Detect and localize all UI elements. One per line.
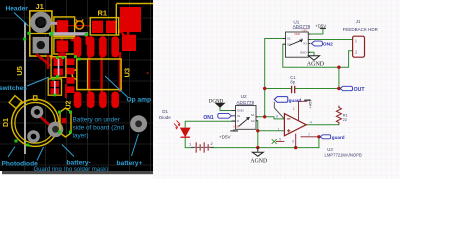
red traces xyxy=(39,26,128,126)
net flag ON1 xyxy=(203,113,231,121)
label switches xyxy=(0,77,49,92)
wire U1 S2 to J1 pin2 / OUT node xyxy=(283,44,353,67)
wire U1 S1 to inverting node xyxy=(265,39,286,117)
junction op-amp V- to rail xyxy=(294,146,297,149)
wire U1 GND to AGND xyxy=(308,52,314,55)
net flag guard (pin7) xyxy=(320,135,344,140)
net flag OUT xyxy=(340,86,365,93)
power flag +D5V (U1) xyxy=(315,24,326,29)
resistor R1 xyxy=(336,106,341,125)
junction guard pin7 xyxy=(317,135,320,138)
svg-text:switches: switches xyxy=(0,85,27,92)
wire AGND rail xyxy=(211,147,319,149)
label Op amp xyxy=(105,76,151,104)
svg-text:Battery on under: Battery on under xyxy=(73,117,121,124)
resistor R1 footprint xyxy=(90,18,119,35)
switch U2 ADG779 xyxy=(232,106,258,130)
window edge shadow xyxy=(2,171,153,174)
svg-text:7: 7 xyxy=(308,133,310,137)
svg-text:2: 2 xyxy=(293,107,295,111)
label battery- xyxy=(62,145,91,167)
svg-text:guard: guard xyxy=(289,98,302,103)
svg-text:ON1: ON1 xyxy=(203,115,214,121)
wire op-amp output to R1 xyxy=(306,124,339,126)
svg-text:S2: S2 xyxy=(251,119,255,123)
gray trace J1 to U3 xyxy=(49,32,88,44)
switch U2 footprint octagon xyxy=(58,108,72,137)
svg-text:battery-: battery- xyxy=(67,160,91,167)
svg-text:AGND: AGND xyxy=(307,61,325,67)
svg-text:guard: guard xyxy=(332,135,345,140)
svg-text:+D5V: +D5V xyxy=(315,24,326,29)
svg-text:S1: S1 xyxy=(287,37,291,41)
label battery+ xyxy=(117,134,143,167)
svg-text:+A5V: +A5V xyxy=(309,99,313,109)
label Battery on under side of board (2nd layer) xyxy=(73,117,125,140)
svg-text:layer): layer) xyxy=(73,133,89,140)
svg-text:8: 8 xyxy=(276,114,278,118)
wire U1 VDD to +D5V xyxy=(308,28,323,34)
switch U1 ADG779 xyxy=(283,28,311,57)
svg-text:+D5V: +D5V xyxy=(219,135,232,140)
power flag +A5V xyxy=(304,99,312,109)
photodiode footprint xyxy=(9,96,63,147)
svg-text:VDD: VDD xyxy=(294,32,300,36)
svg-text:22: 22 xyxy=(343,117,348,122)
ground AGND (under U1) xyxy=(307,56,325,68)
wire guard pin7 elbow to rail xyxy=(318,137,320,148)
svg-text:U3: U3 xyxy=(122,68,131,78)
wire U1 D to J1 pin1 xyxy=(308,39,352,41)
wire photodiode cathode to battery xyxy=(185,137,193,147)
junction AGND rail tap xyxy=(256,146,259,149)
test point glyph xyxy=(76,19,84,29)
svg-text:ADG779: ADG779 xyxy=(293,24,311,29)
svg-text:LMP7721MA/NOPB: LMP7721MA/NOPB xyxy=(325,152,362,157)
header J1 footprint xyxy=(23,11,54,56)
capacitor footprint left of R1 xyxy=(54,17,75,54)
op-amp U3 xyxy=(276,101,319,147)
svg-text:FEEDBACK HDR: FEEDBACK HDR xyxy=(343,27,379,32)
svg-text:J1: J1 xyxy=(356,19,361,24)
svg-text:4: 4 xyxy=(310,120,312,124)
net flag ON2 xyxy=(311,41,333,48)
battery+ pad xyxy=(130,115,147,132)
net flag guard (inverting node) xyxy=(274,97,301,119)
svg-text:Diode: Diode xyxy=(159,115,171,120)
power flag +D5V (U2) xyxy=(219,129,238,139)
gray trace J1 pad to cap pad xyxy=(51,22,58,25)
svg-text:IN: IN xyxy=(304,42,307,46)
svg-text:U2: U2 xyxy=(241,94,247,99)
svg-text:side of board (2nd: side of board (2nd xyxy=(73,125,125,132)
wire C1 feedback xyxy=(265,88,339,90)
svg-text:D1: D1 xyxy=(3,118,10,127)
svg-text:battery+: battery+ xyxy=(117,160,143,167)
pcb grid xyxy=(0,0,153,171)
svg-text:Op amp: Op amp xyxy=(127,97,152,104)
connector J1 FEEDBACK HDR xyxy=(353,36,365,57)
svg-text:GND: GND xyxy=(237,109,245,113)
svg-text:ADG779: ADG779 xyxy=(236,100,254,105)
svg-text:S1: S1 xyxy=(251,113,255,117)
capacitor C1 xyxy=(292,86,295,93)
node OUT xyxy=(337,87,340,90)
wire inverting input xyxy=(256,117,284,119)
svg-text:GND: GND xyxy=(300,50,308,54)
right edge pads xyxy=(116,4,153,52)
svg-text:8p: 8p xyxy=(290,80,295,85)
svg-text:D1: D1 xyxy=(162,109,168,114)
junction non-inverting input xyxy=(256,129,259,132)
svg-text:Header: Header xyxy=(6,6,29,13)
svg-text:U2: U2 xyxy=(66,100,73,109)
svg-text:ON2: ON2 xyxy=(323,42,333,48)
wire U2 GND pin to DGND xyxy=(220,107,236,110)
svg-text:S2: S2 xyxy=(287,42,291,46)
ground AGND (rail) xyxy=(250,148,267,165)
op-amp U3 footprint xyxy=(72,36,121,108)
board edge line xyxy=(24,22,26,154)
junction inverting input node xyxy=(263,115,266,118)
svg-text:IN: IN xyxy=(237,114,240,118)
wire photodiode anode to U2 D pin xyxy=(185,121,235,128)
small footprints middle xyxy=(36,53,75,97)
PCB layout panel (left) xyxy=(0,0,153,176)
svg-text:6: 6 xyxy=(292,140,294,144)
svg-text:1: 1 xyxy=(278,127,280,131)
junction J1 pin2 / U1 S2 xyxy=(337,66,340,69)
svg-text:VDD: VDD xyxy=(233,124,239,128)
svg-text:J1: J1 xyxy=(36,2,44,11)
wire U2 S2 down to +IN and AGND rail xyxy=(256,121,258,148)
wire non-inverting input xyxy=(258,130,285,132)
svg-text:AGND: AGND xyxy=(250,158,267,164)
svg-text:R1: R1 xyxy=(98,9,108,18)
battery BT1 xyxy=(189,141,214,152)
label Header xyxy=(6,6,29,27)
svg-text:DGND: DGND xyxy=(209,100,224,105)
svg-text:5: 5 xyxy=(279,137,281,141)
no-connect X pin5 xyxy=(272,139,277,144)
svg-text:U5: U5 xyxy=(15,66,24,76)
junction C1 left / inverting net xyxy=(263,87,266,90)
label Guard ring (no solder mask) xyxy=(34,147,109,173)
schematic panel (right) xyxy=(153,0,474,180)
ground DGND xyxy=(209,100,225,108)
wire OUT vertical drop xyxy=(338,67,340,88)
label Photodiode xyxy=(2,147,39,168)
svg-text:OUT: OUT xyxy=(354,87,366,93)
svg-text:U3: U3 xyxy=(327,147,333,152)
photodiode D1 xyxy=(174,121,190,138)
